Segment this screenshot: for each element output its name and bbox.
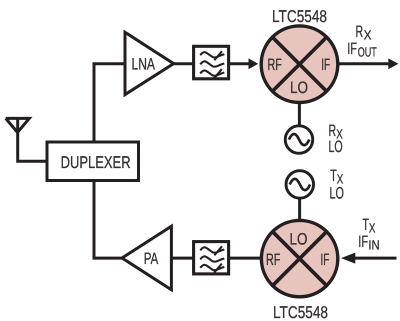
amplifier PA xyxy=(122,226,171,290)
svg-text:LO: LO xyxy=(290,79,308,97)
filter RX bandpass xyxy=(194,46,229,79)
svg-text:LO: LO xyxy=(329,138,343,156)
svg-text:IN: IN xyxy=(368,238,379,253)
svg-text:IF: IF xyxy=(321,251,330,269)
svg-text:LTC5548: LTC5548 xyxy=(273,303,328,321)
duplexer box xyxy=(47,142,139,181)
svg-text:LNA: LNA xyxy=(132,56,156,74)
svg-text:LTC5548: LTC5548 xyxy=(272,7,327,26)
mixer U2 LTC5548 (TX) xyxy=(261,220,337,296)
svg-text:LO: LO xyxy=(290,230,308,248)
label TX LO (oscillator) xyxy=(330,167,345,203)
svg-text:PA: PA xyxy=(144,250,159,268)
label RX IFOUT xyxy=(347,23,377,60)
wire TX IFIN input with arrowhead xyxy=(341,253,397,264)
oscillator RX LO xyxy=(285,126,313,154)
label RX LO (oscillator) xyxy=(329,122,343,156)
wire duplexer to PA xyxy=(94,181,123,259)
svg-text:X: X xyxy=(369,221,376,236)
svg-text:R: R xyxy=(356,23,364,41)
wire PA to TX filter xyxy=(170,257,195,260)
wire LNA to RX filter xyxy=(172,62,195,65)
wire antenna to duplexer xyxy=(18,131,46,161)
wire duplexer to LNA xyxy=(94,64,125,142)
label TX IFIN xyxy=(358,216,379,253)
wire mixer LO to RX LO oscillator xyxy=(298,102,301,127)
svg-text:RF: RF xyxy=(266,251,280,269)
svg-text:DUPLEXER: DUPLEXER xyxy=(61,153,131,172)
antenna xyxy=(6,117,30,133)
filter TX bandpass xyxy=(194,242,229,274)
amplifier LNA xyxy=(125,32,174,94)
wire TX LO oscillator to mixer LO xyxy=(298,198,301,223)
wire RX filter to mixer with arrowhead xyxy=(229,58,258,69)
svg-text:IF: IF xyxy=(347,40,357,58)
svg-text:IF: IF xyxy=(321,56,330,74)
svg-text:OUT: OUT xyxy=(358,45,377,60)
svg-text:IF: IF xyxy=(358,233,368,251)
svg-text:RF: RF xyxy=(268,56,282,74)
oscillator TX LO xyxy=(286,171,314,199)
wire TX filter to mixer RF xyxy=(229,257,263,260)
svg-text:LO: LO xyxy=(330,185,345,203)
svg-text:X: X xyxy=(364,28,372,43)
mixer U1 LTC5548 (RX) xyxy=(261,26,338,103)
wire mixer IF to output with arrowhead xyxy=(339,58,398,69)
